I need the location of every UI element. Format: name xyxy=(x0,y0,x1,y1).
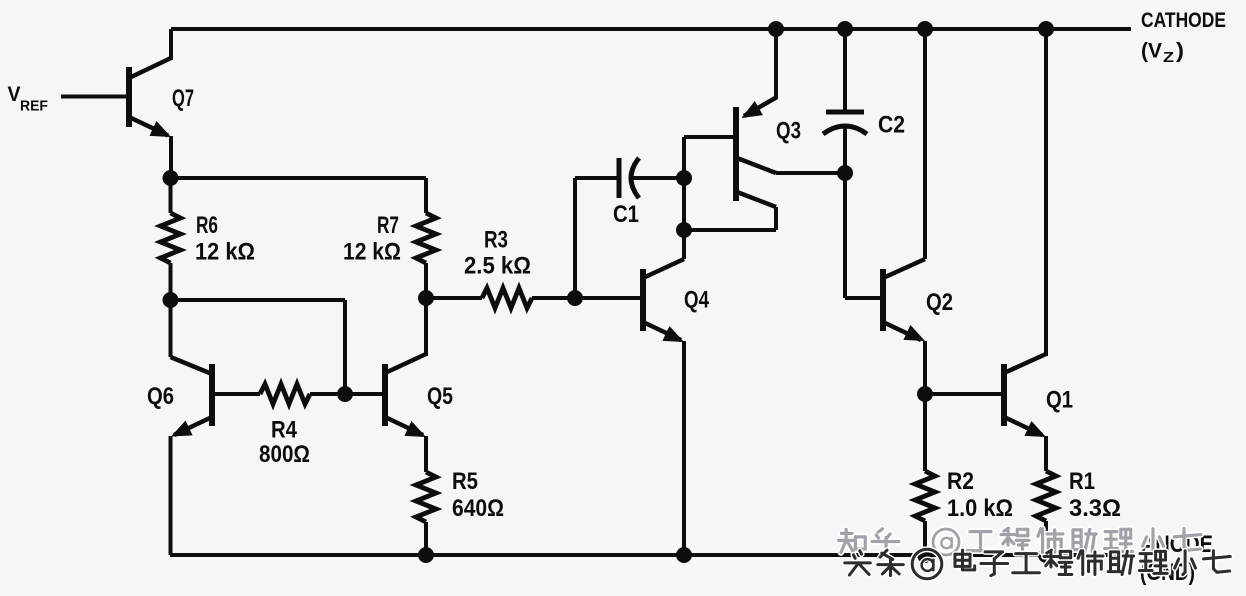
node E junction xyxy=(567,290,583,306)
svg-text:640Ω: 640Ω xyxy=(452,495,504,522)
node C junction on R4 line xyxy=(337,386,353,402)
svg-text:3.3Ω: 3.3Ω xyxy=(1069,495,1121,522)
svg-text:Q4: Q4 xyxy=(684,286,709,313)
label R2 value xyxy=(947,468,1013,521)
svg-text:C2: C2 xyxy=(878,111,905,138)
resistor R3 xyxy=(426,288,575,308)
wire bottom rail (anode bus) xyxy=(170,553,1133,557)
node: top rail junction at Q1 collector xyxy=(1038,21,1054,37)
node F junction (C1 / Q3 base line) xyxy=(676,170,692,186)
node: bottom rail junction at R1 xyxy=(1038,547,1054,563)
net label CATHODE (V_Z) xyxy=(1141,8,1226,65)
svg-text:REF: REF xyxy=(20,98,48,115)
capacitor C1 xyxy=(619,158,684,198)
label R6 value xyxy=(195,212,255,264)
label R4 value xyxy=(259,416,310,467)
resistor R4 xyxy=(212,384,382,404)
svg-text:Q3: Q3 xyxy=(776,117,801,144)
svg-text:R4: R4 xyxy=(271,416,298,443)
wire node E up to C1 xyxy=(575,178,619,298)
wire node I to Q1 base xyxy=(925,392,1001,396)
resistor R5 xyxy=(416,472,436,555)
svg-text:C1: C1 xyxy=(613,200,639,227)
transistor Q1 xyxy=(1004,29,1050,471)
wire node A to R7 top xyxy=(170,176,426,180)
svg-text:Z: Z xyxy=(1163,48,1174,65)
resistor R6 xyxy=(161,178,181,300)
node: top rail junction at Q2 collector xyxy=(917,21,933,37)
svg-text:CATHODE: CATHODE xyxy=(1141,8,1226,32)
node: top rail junction at C2 xyxy=(837,21,853,37)
transistor Q5 xyxy=(385,298,430,472)
node: bottom rail junction at R2 xyxy=(917,547,933,563)
net label ANODE (GND) xyxy=(1140,530,1213,585)
node: bottom rail junction at R5 xyxy=(418,547,434,563)
wire Q3 base drop xyxy=(682,137,686,259)
svg-text:800Ω: 800Ω xyxy=(259,441,310,468)
svg-text:R5: R5 xyxy=(452,467,478,494)
svg-text:R3: R3 xyxy=(484,226,508,253)
node H junction xyxy=(837,165,853,181)
watermark line 2 xyxy=(845,549,1231,579)
svg-text:1.0 kΩ: 1.0 kΩ xyxy=(947,494,1013,521)
node A junction xyxy=(163,170,179,186)
svg-text:R2: R2 xyxy=(947,468,974,495)
node: bottom rail junction at Q4 emitter xyxy=(676,547,692,563)
transistor Q7 xyxy=(129,29,175,178)
net label V_REF xyxy=(8,83,49,114)
capacitor C2 xyxy=(823,29,867,173)
label R1 value xyxy=(1069,467,1121,522)
svg-text:Q2: Q2 xyxy=(926,288,953,315)
node VREF: base wire of Q7 xyxy=(61,95,126,99)
node I junction xyxy=(917,386,933,402)
transistor Q2 xyxy=(883,29,929,394)
transistor Q6 xyxy=(167,300,212,555)
svg-text:Q6: Q6 xyxy=(147,382,174,409)
svg-text:V: V xyxy=(8,83,21,106)
resistor R7 xyxy=(416,213,436,298)
resistor R1 xyxy=(1036,471,1056,555)
node G junction (Q3 collector2 loop) xyxy=(676,222,692,238)
wire node E to Q4 base xyxy=(575,296,640,300)
svg-text:12 kΩ: 12 kΩ xyxy=(195,238,255,265)
svg-text:12 kΩ: 12 kΩ xyxy=(343,238,401,265)
wire node H to Q2 base xyxy=(845,173,880,298)
label R5 value xyxy=(452,467,504,521)
watermark line 1 xyxy=(839,528,1201,555)
label R7 value xyxy=(343,212,401,265)
svg-text:R7: R7 xyxy=(377,212,399,238)
node D junction (R7 bottom / R3 left / Q5 collector) xyxy=(418,290,434,306)
node B junction (R6 bottom) xyxy=(163,292,179,308)
transistor Q4 xyxy=(643,259,688,555)
resistor R2 xyxy=(915,394,935,555)
svg-text:2.5 kΩ: 2.5 kΩ xyxy=(464,252,531,279)
svg-text:R1: R1 xyxy=(1069,467,1095,494)
svg-text:R6: R6 xyxy=(196,212,218,238)
wire node B to R4 junction xyxy=(170,300,345,394)
svg-text:Q7: Q7 xyxy=(172,85,194,112)
label R3 value xyxy=(464,226,531,278)
svg-text:Q1: Q1 xyxy=(1046,386,1073,413)
svg-text:): ) xyxy=(1176,38,1184,63)
svg-text:(V: (V xyxy=(1141,38,1163,62)
node: top rail junction at Q3 emitter xyxy=(768,21,784,37)
wire top rail (cathode bus) xyxy=(171,27,1131,31)
transistor Q3 xyxy=(684,29,845,230)
svg-text:Q5: Q5 xyxy=(427,382,453,409)
